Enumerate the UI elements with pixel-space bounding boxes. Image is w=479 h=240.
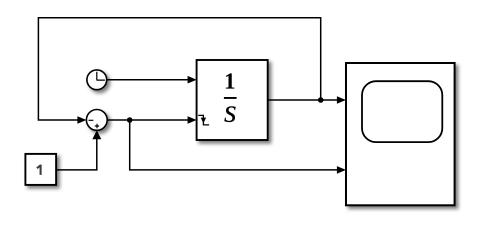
clock block [87, 70, 107, 90]
junction J1 [318, 97, 324, 103]
wire constant to sum bottom input [56, 130, 101, 170]
integrator block 1/s [197, 60, 268, 140]
wire clock to integrator port 1 [107, 76, 197, 84]
wire integrator output to scope port 1 [268, 96, 346, 104]
sum block [86, 110, 107, 131]
wire sum output to integrator port 2 [107, 116, 196, 124]
integrator external reset trigger icon [198, 115, 209, 125]
junction J2 [127, 117, 133, 123]
wire feedback loop (junction to sum input) [38, 18, 320, 124]
constant block value 1 [25, 154, 56, 185]
scope block [346, 63, 455, 205]
wire junction J2 to scope port 2 [130, 120, 346, 174]
